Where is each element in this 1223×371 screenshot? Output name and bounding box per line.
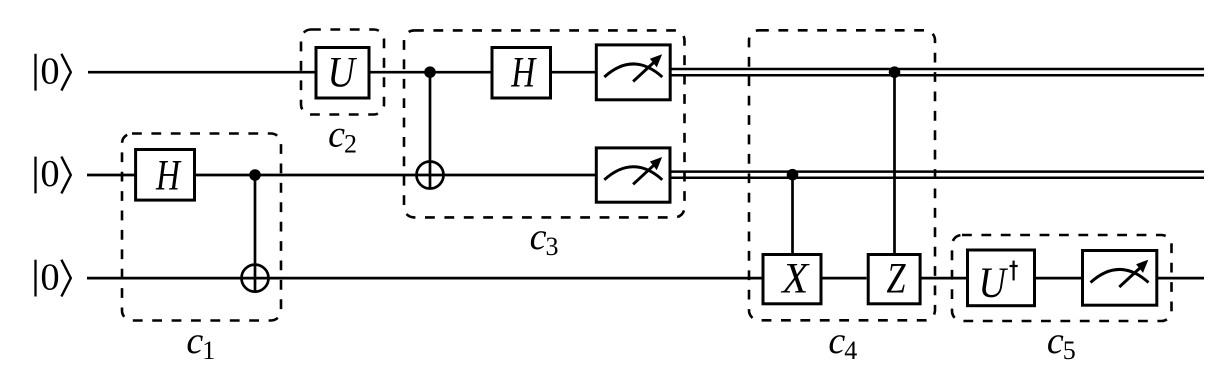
classical double wire q0 — [672, 69, 1205, 75]
wire q2 segment 5 — [1158, 277, 1204, 280]
CNOT c3: target on q1 — [417, 162, 444, 189]
wire q2 segment 3 — [922, 277, 967, 280]
classical control dot on q0 for Z — [889, 66, 901, 78]
classical double wire q1 — [672, 172, 1205, 178]
svg-text:4: 4 — [844, 336, 857, 365]
label c3 — [530, 216, 559, 261]
ket |0> qubit q2 — [36, 256, 71, 298]
CNOT c3: control dot on q0 — [424, 66, 436, 78]
dashed group box c4 — [749, 30, 935, 320]
CNOT c3: vertical wire — [429, 72, 432, 188]
svg-text:5: 5 — [1063, 336, 1076, 365]
ket |0> qubit q0 — [36, 50, 71, 92]
label c4 — [828, 320, 857, 365]
svg-text:c: c — [1047, 320, 1064, 362]
ket |0> qubit q1 — [36, 153, 71, 195]
label c1 — [186, 320, 215, 365]
dashed group box c3 — [404, 30, 685, 217]
dashed group box c5 — [952, 235, 1172, 321]
svg-text:2: 2 — [344, 129, 357, 158]
classical control dot on q1 for X — [787, 169, 799, 181]
label c5 — [1047, 320, 1076, 365]
gate Z (c4) on q2 — [868, 255, 920, 304]
wire q2 segment 2 — [823, 277, 867, 280]
svg-text:U: U — [327, 50, 357, 97]
wire q1 segment 2 — [196, 174, 595, 177]
svg-text:0: 0 — [40, 50, 59, 92]
gate U-dagger (c5) on q2 — [968, 250, 1035, 307]
wire q2 segment 4 — [1036, 277, 1081, 280]
svg-text:c: c — [328, 113, 345, 155]
meter M1 on q0 — [596, 45, 670, 100]
svg-text:H: H — [510, 50, 536, 97]
svg-text:1: 1 — [202, 336, 215, 365]
svg-text:U: U — [979, 260, 1009, 307]
svg-text:c: c — [828, 320, 845, 362]
svg-text:c: c — [186, 320, 203, 362]
dashed group box c1 — [122, 134, 281, 321]
svg-text:0: 0 — [40, 153, 59, 195]
meter M2 on q1 — [596, 148, 670, 202]
wire q1 segment 1 — [87, 174, 135, 177]
svg-text:X: X — [780, 255, 810, 302]
gate H (c3) on q0 — [492, 48, 551, 99]
svg-text:3: 3 — [546, 232, 559, 261]
wire q2 segment 1 — [87, 277, 762, 280]
gate X (c4) on q2 — [763, 255, 821, 304]
CNOT c1: vertical wire — [254, 175, 257, 292]
meter M3 on q2 — [1083, 251, 1157, 306]
CNOT c1: control dot on q1 — [249, 169, 261, 181]
gate H (c1) on q1 — [136, 150, 195, 201]
svg-text:H: H — [155, 152, 181, 199]
wire q0 segment 2 — [371, 71, 596, 74]
svg-text:Z: Z — [887, 255, 907, 302]
wire q0 segment 1 — [88, 71, 315, 74]
label c2 — [328, 113, 357, 158]
gate U (c2) on q0 — [316, 48, 369, 99]
svg-text:c: c — [530, 216, 547, 258]
classical control wire to Z — [893, 72, 896, 253]
svg-text:0: 0 — [40, 256, 59, 298]
CNOT c1: target on q2 — [242, 265, 269, 292]
classical control wire to X — [791, 175, 794, 253]
dashed group box c2 — [301, 30, 384, 115]
